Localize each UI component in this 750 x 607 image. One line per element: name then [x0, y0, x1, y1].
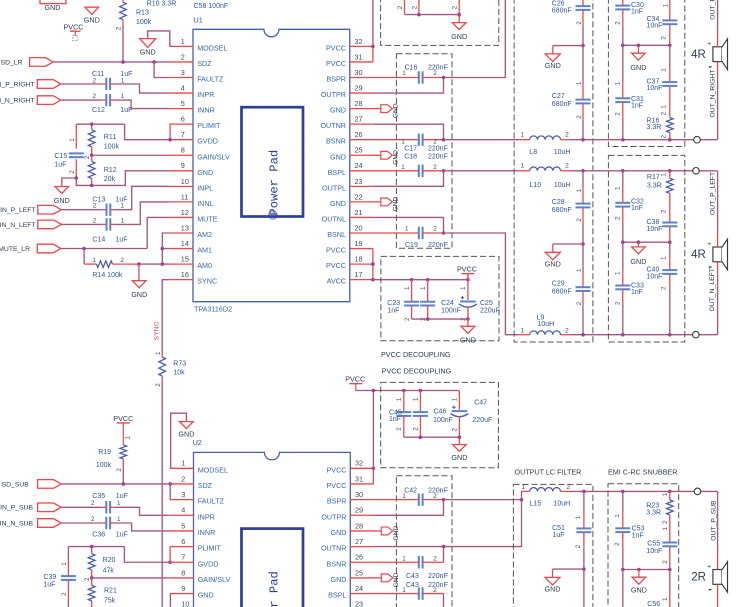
svg-text:1: 1	[576, 81, 583, 85]
pin 3 (FAULTZ)	[170, 499, 194, 501]
svg-text:10nF: 10nF	[647, 85, 663, 92]
svg-text:IN_P_LEFT: IN_P_LEFT	[0, 207, 36, 214]
svg-text:18: 18	[355, 255, 363, 264]
svg-text:PVCC: PVCC	[457, 265, 477, 274]
svg-text:1nF: 1nF	[631, 289, 643, 296]
capacitor C26 680nF	[582, 0, 584, 6]
svg-text:4R: 4R	[691, 249, 706, 261]
wire MUTE	[61, 248, 147, 250]
junction OUTNR U2	[442, 545, 446, 549]
svg-text:C19: C19	[405, 242, 418, 249]
svg-text:IN_P_SUB: IN_P_SUB	[0, 505, 33, 512]
capacitor C42 220nF	[373, 499, 418, 501]
svg-text:INNR: INNR	[197, 106, 215, 115]
wire to left speaker plus	[717, 232, 719, 248]
wire SYNC down to U2 area	[161, 383, 163, 607]
capacitor C17 220nF	[373, 139, 419, 141]
speaker 2R sub	[713, 570, 722, 585]
capacitor C23 1nF	[411, 280, 413, 302]
svg-text:GND: GND	[460, 336, 476, 345]
capacitor C53 1nF	[622, 513, 624, 529]
svg-text:C43: C43	[406, 573, 419, 580]
pin 3 (FAULTZ)	[169, 77, 193, 79]
wire AM0/AM1/AM2 tie	[139, 263, 169, 265]
svg-text:2: 2	[396, 427, 403, 431]
svg-text:29: 29	[355, 506, 363, 515]
svg-text:PLIMIT: PLIMIT	[198, 544, 222, 553]
svg-text:28: 28	[355, 99, 363, 108]
inductor L8 10uH	[519, 139, 530, 141]
capacitor C28 680nF	[582, 188, 584, 204]
svg-text:1: 1	[522, 484, 526, 491]
pin 10 (INPL)	[169, 185, 193, 187]
wire to speaker minus	[717, 62, 719, 78]
GND port pin 28	[381, 105, 393, 113]
svg-text:2: 2	[661, 135, 668, 139]
pin 9 (GND)	[170, 593, 194, 595]
pin 30 (BSPR)	[350, 77, 373, 79]
pin 19 (PVCC)	[350, 248, 373, 250]
svg-text:25: 25	[355, 146, 363, 155]
svg-text:15: 15	[181, 255, 189, 264]
svg-text:1: 1	[661, 105, 668, 109]
svg-text:GND: GND	[54, 196, 70, 205]
svg-text:2: 2	[575, 544, 582, 548]
svg-text:R13: R13	[136, 10, 149, 17]
svg-text:1uF: 1uF	[553, 532, 565, 539]
port IN_N_LEFT	[38, 220, 62, 229]
svg-text:GND: GND	[84, 15, 100, 24]
pin 12 (MUTE)	[169, 216, 193, 218]
EMI snubber box L	[608, 155, 684, 342]
U1 bootstrap box	[396, 54, 452, 249]
pin 5 (INNR)	[170, 530, 194, 532]
svg-text:1: 1	[401, 139, 405, 146]
svg-text:C56: C56	[647, 601, 660, 607]
svg-text:14: 14	[181, 239, 189, 248]
svg-text:GND: GND	[330, 106, 346, 115]
svg-text:+: +	[707, 241, 711, 248]
svg-text:1nF: 1nF	[389, 416, 401, 423]
GND port pin 25 U2	[381, 574, 393, 582]
pin 15 (AM0)	[169, 263, 193, 265]
capacitor stub C22	[458, 0, 460, 15]
svg-text:9: 9	[181, 584, 185, 593]
junction GVDD/PLIMIT	[168, 138, 172, 142]
wire AVCC to decoupling	[373, 279, 468, 281]
junction C42	[442, 498, 446, 502]
capacitor C34 10nF	[669, 0, 671, 20]
svg-text:1: 1	[69, 138, 76, 142]
svg-text:2: 2	[116, 468, 123, 472]
ground (MODSEL U2)	[171, 413, 187, 468]
capacitor C33 1nF	[622, 270, 624, 286]
svg-text:13: 13	[181, 223, 189, 232]
svg-text:C24: C24	[441, 300, 454, 307]
svg-text:6: 6	[181, 537, 185, 546]
svg-text:PVCC: PVCC	[326, 59, 346, 68]
svg-text:100nF: 100nF	[433, 417, 453, 424]
junction R11 top	[90, 122, 94, 126]
svg-text:2: 2	[565, 162, 569, 169]
pin 23 (OUTPL)	[350, 185, 373, 187]
svg-text:26: 26	[355, 130, 363, 139]
svg-text:C28: C28	[552, 199, 565, 206]
svg-text:1: 1	[402, 70, 406, 77]
svg-text:1: 1	[614, 271, 621, 275]
svg-text:2: 2	[614, 112, 621, 116]
svg-text:IN_P_RIGHT: IN_P_RIGHT	[0, 81, 35, 88]
svg-text:INNR: INNR	[198, 528, 216, 537]
svg-text:OUTPL: OUTPL	[322, 183, 346, 192]
svg-text:C53: C53	[632, 526, 645, 533]
svg-text:1uF: 1uF	[43, 582, 55, 589]
svg-text:GND: GND	[545, 61, 561, 70]
resistor R19 100k	[122, 423, 124, 445]
wire GVDD rail	[76, 123, 124, 125]
svg-text:SD_SUB: SD_SUB	[2, 481, 30, 488]
svg-text:1: 1	[405, 225, 409, 232]
wire C15 to GND	[62, 178, 77, 187]
svg-text:1: 1	[396, 397, 403, 401]
svg-text:C46: C46	[434, 408, 447, 415]
svg-text:C35: C35	[92, 493, 105, 500]
wire IN_N_LEFT	[61, 223, 102, 225]
pin 25 (GND)	[350, 154, 373, 156]
svg-text:1: 1	[662, 527, 669, 531]
pin 22 (GND)	[350, 201, 373, 203]
junction R20 top	[90, 545, 94, 549]
svg-text:3: 3	[181, 68, 185, 77]
svg-text:19: 19	[355, 239, 363, 248]
pin 9 (GND)	[169, 170, 193, 172]
resistor R21 75k	[91, 578, 93, 585]
pin 2 (SDZ)	[169, 61, 193, 63]
junction R12 bottom	[90, 184, 94, 188]
svg-text:31: 31	[355, 474, 363, 483]
svg-text:100k: 100k	[104, 143, 120, 150]
svg-text:2: 2	[93, 217, 97, 224]
pin 21 (OUTNL)	[350, 216, 373, 218]
svg-text:U2: U2	[193, 438, 202, 447]
pin 6 (PLIMIT)	[170, 546, 194, 548]
pin 32 (PVCC)	[350, 467, 373, 469]
svg-text:25: 25	[355, 568, 363, 577]
svg-text:OUT_P_RIGHT: OUT_P_RIGHT	[710, 0, 717, 20]
svg-text:C47: C47	[474, 400, 487, 407]
svg-text:GND: GND	[393, 573, 400, 588]
pin 11 (INNL)	[169, 201, 193, 203]
svg-text:220uF: 220uF	[480, 307, 500, 314]
svg-text:C15: C15	[54, 153, 67, 160]
wire C16 to OUTPR	[373, 78, 444, 94]
svg-text:1: 1	[181, 37, 185, 46]
wire C36 to INNR U2	[110, 522, 115, 524]
wire GAIN/SLV	[92, 154, 170, 156]
svg-text:23: 23	[355, 600, 363, 607]
wire decoupling gnd rail	[405, 14, 460, 16]
wire sub speaker minus down	[717, 584, 719, 607]
pin 2 (SDZ)	[170, 483, 194, 485]
svg-text:MUTE_LR: MUTE_LR	[0, 246, 30, 253]
pin 1 (MODSEL)	[169, 45, 193, 47]
junction C51 gnd	[582, 567, 586, 571]
wire OUT_P_SUB line	[571, 490, 718, 492]
pin 1 (MODSEL)	[170, 467, 194, 469]
pin 13 (AM2)	[169, 232, 193, 234]
pin 5 (INNR)	[169, 108, 193, 110]
U2 PVCC decoupling box	[381, 382, 499, 467]
svg-text:R10 3.3R: R10 3.3R	[147, 1, 177, 8]
svg-text:5: 5	[181, 521, 185, 530]
svg-text:SYNC: SYNC	[153, 322, 160, 341]
pin 16 (SYNC)	[169, 279, 193, 281]
svg-text:2: 2	[614, 216, 621, 220]
svg-text:+: +	[707, 41, 711, 48]
svg-text:1: 1	[662, 3, 669, 7]
svg-text:17: 17	[355, 270, 363, 279]
svg-text:2: 2	[451, 428, 458, 432]
svg-text:2: 2	[433, 587, 437, 594]
svg-text:GND: GND	[331, 528, 347, 537]
port SD_LR	[30, 58, 53, 67]
svg-text:10uH: 10uH	[538, 321, 555, 328]
svg-text:1nF: 1nF	[631, 102, 643, 109]
resistor R73 10k	[161, 352, 163, 357]
resistor R14 100k	[83, 249, 85, 265]
pin 6 (PLIMIT)	[169, 123, 193, 125]
capacitor stub C21	[418, 0, 420, 15]
svg-text:2: 2	[433, 493, 437, 500]
svg-text:EMI C-RC SNUBBER: EMI C-RC SNUBBER	[608, 467, 678, 476]
svg-text:L15: L15	[530, 501, 542, 508]
svg-text:30: 30	[355, 490, 363, 499]
wire IN_N_SUB	[61, 522, 102, 524]
svg-text:C17: C17	[404, 146, 417, 153]
capacitor C15 1uF	[75, 124, 77, 148]
svg-text:GND: GND	[393, 150, 400, 165]
svg-text:1uF: 1uF	[54, 162, 66, 169]
junction C16	[442, 76, 446, 80]
svg-text:24: 24	[355, 584, 363, 593]
svg-text:GND: GND	[393, 197, 400, 212]
wire PVCC pins 31-32 U2	[372, 468, 374, 484]
wire to FAULTZ U2	[169, 484, 171, 500]
wire C39 bottom	[67, 599, 69, 607]
junction R14/GND	[137, 262, 141, 266]
svg-text:21: 21	[355, 208, 363, 217]
wire R13 to SD_LR net	[122, 25, 124, 62]
svg-text:1: 1	[61, 562, 68, 566]
svg-text:7: 7	[181, 130, 185, 139]
LC filter box	[514, 0, 593, 342]
pin 7 (GVDD)	[169, 139, 193, 141]
svg-text:10uH: 10uH	[554, 182, 571, 189]
svg-text:8: 8	[181, 568, 185, 577]
svg-text:1: 1	[121, 203, 125, 210]
speaker 4R right	[713, 47, 722, 62]
svg-text:8: 8	[181, 146, 185, 155]
svg-text:10: 10	[181, 177, 189, 186]
svg-text:PVCC: PVCC	[345, 375, 365, 384]
svg-text:28: 28	[355, 521, 363, 530]
svg-text:OUT_N_RIGHT: OUT_N_RIGHT	[710, 70, 717, 118]
ground (divider)	[55, 187, 69, 194]
junction C26/C27 gnd	[581, 44, 585, 48]
svg-text:IN_N_SUB: IN_N_SUB	[0, 520, 33, 527]
svg-text:C51: C51	[552, 525, 565, 532]
svg-text:GND: GND	[451, 32, 467, 41]
svg-text:AM1: AM1	[197, 246, 212, 255]
svg-text:1: 1	[404, 286, 411, 290]
U1 PVCC decoupling box	[381, 256, 499, 340]
wire decoupling bottom rail	[412, 318, 468, 320]
junction PVCC	[371, 45, 375, 49]
svg-text:L10: L10	[530, 182, 542, 189]
svg-text:1nF: 1nF	[387, 307, 399, 314]
ground (snubber sub)	[638, 570, 640, 578]
svg-text:GND: GND	[545, 585, 561, 594]
svg-text:32: 32	[355, 37, 363, 46]
ground (U1 decoupling)	[467, 319, 469, 326]
svg-text:2: 2	[61, 592, 68, 596]
wire GAIN/SLV U2	[92, 577, 170, 579]
svg-text:2: 2	[661, 209, 668, 213]
wire PLIMIT tie U2	[169, 547, 171, 563]
svg-text:C12: C12	[92, 107, 105, 114]
svg-text:27: 27	[355, 537, 363, 546]
wire PVCC rail up U2	[372, 391, 374, 469]
svg-text:10uH: 10uH	[554, 149, 571, 156]
capacitor C37 10nF	[669, 66, 671, 82]
svg-text:680nF: 680nF	[552, 8, 572, 15]
svg-text:BSPR: BSPR	[327, 497, 347, 506]
svg-text:GND: GND	[140, 47, 156, 56]
svg-text:MODSEL: MODSEL	[198, 465, 228, 474]
svg-text:1uF: 1uF	[116, 493, 128, 500]
inductor L10 10uH	[519, 170, 530, 172]
svg-text:10nF: 10nF	[647, 274, 663, 281]
capacitor C25 220uF	[467, 274, 469, 300]
svg-text:MODSEL: MODSEL	[197, 43, 227, 52]
svg-text:PVCC: PVCC	[326, 261, 346, 270]
svg-text:1: 1	[521, 327, 525, 334]
wire GND rail to pin9	[76, 171, 169, 186]
svg-text:C14: C14	[92, 236, 105, 243]
svg-text:FAULTZ: FAULTZ	[198, 497, 225, 506]
connector circle OUT_N_RIGHT	[694, 136, 701, 143]
wire OUTPL to L10	[444, 170, 519, 172]
pin 14 (AM1)	[169, 248, 193, 250]
junction R19/SD_SUB	[122, 482, 126, 486]
speaker 4R left	[713, 247, 722, 262]
pin 30 (BSPR)	[350, 499, 373, 501]
wire snubber left rail down sub	[622, 570, 624, 607]
svg-text:220nF: 220nF	[428, 487, 448, 494]
svg-text:C58 100nF: C58 100nF	[194, 3, 229, 10]
svg-text:PVCC DECOUPLING: PVCC DECOUPLING	[381, 350, 451, 359]
pin 8 (GAIN/SLV)	[170, 577, 194, 579]
svg-text:1nF: 1nF	[631, 8, 643, 15]
svg-text:2: 2	[662, 520, 669, 524]
svg-text:2: 2	[69, 170, 76, 174]
wire speaker R plus up	[717, 31, 719, 47]
pin 29 (OUTPR)	[350, 92, 373, 94]
wire C13 to INPL	[110, 209, 115, 211]
capacitor C35 1uF	[105, 501, 107, 513]
svg-text:10nF: 10nF	[647, 226, 663, 233]
svg-text:SYNC: SYNC	[197, 277, 217, 286]
svg-text:GND: GND	[131, 290, 147, 299]
junction C18	[442, 169, 446, 173]
svg-text:GND: GND	[178, 429, 194, 438]
svg-text:C36: C36	[92, 531, 105, 538]
svg-text:PVCC: PVCC	[327, 465, 347, 474]
junction GVDD/PLIMIT U2	[168, 560, 172, 564]
svg-text:GAIN/SLV: GAIN/SLV	[198, 575, 231, 584]
svg-text:PVCC: PVCC	[64, 23, 84, 32]
svg-text:R11: R11	[104, 134, 116, 141]
junction MUTE/R14	[82, 247, 86, 251]
svg-text:C55: C55	[647, 540, 660, 547]
port IN_N_SUB	[38, 519, 62, 528]
wire MODSEL to GND	[148, 31, 170, 47]
svg-text:AVCC: AVCC	[327, 277, 346, 286]
wire SD_SUB	[61, 483, 170, 485]
svg-text:220uF: 220uF	[472, 417, 492, 424]
svg-text:PVCC: PVCC	[327, 481, 347, 490]
svg-text:GND: GND	[630, 257, 646, 266]
capacitor C31 1nF	[622, 83, 624, 99]
svg-text:R17: R17	[647, 174, 660, 181]
svg-text:1: 1	[92, 257, 96, 264]
svg-text:C27: C27	[552, 93, 565, 100]
svg-text:1: 1	[451, 397, 458, 401]
svg-text:1uF: 1uF	[116, 236, 128, 243]
svg-text:R20: R20	[103, 557, 116, 564]
wire IN_P_SUB	[61, 506, 102, 508]
svg-text:2: 2	[576, 115, 583, 119]
capacitor C12 1uF	[105, 94, 107, 106]
svg-text:220nF: 220nF	[428, 242, 448, 249]
ground (U2 decoupling)	[458, 437, 460, 444]
svg-text:2: 2	[614, 301, 621, 305]
wire PVCC pins 31-32	[372, 46, 374, 62]
svg-text:2: 2	[91, 516, 95, 523]
resistor R16 3.3R	[667, 118, 674, 133]
svg-text:23: 23	[355, 177, 363, 186]
svg-text:OUTPR: OUTPR	[321, 512, 346, 521]
svg-text:2: 2	[397, 5, 404, 9]
svg-text:TPA3116D2: TPA3116D2	[194, 305, 232, 314]
svg-text:2: 2	[93, 93, 97, 100]
capacitor C27 680nF	[582, 84, 584, 100]
svg-text:2: 2	[565, 327, 569, 334]
svg-text:AM0: AM0	[197, 261, 212, 270]
svg-text:12: 12	[181, 208, 189, 217]
svg-text:OUT_N_LEFT: OUT_N_LEFT	[709, 268, 716, 311]
wire snubber gnd L	[623, 241, 670, 243]
capacitor C16 220nF	[373, 77, 419, 79]
wire decoupling bottom rail U2	[404, 436, 460, 438]
svg-text:1: 1	[155, 351, 162, 355]
svg-text:680nF: 680nF	[552, 207, 572, 214]
svg-text:R73: R73	[173, 360, 186, 367]
svg-text:1: 1	[124, 436, 131, 440]
capacitor C36 1uF	[105, 517, 107, 529]
pin 8 (GAIN/SLV)	[169, 154, 193, 156]
wire SD_LR	[53, 61, 169, 63]
